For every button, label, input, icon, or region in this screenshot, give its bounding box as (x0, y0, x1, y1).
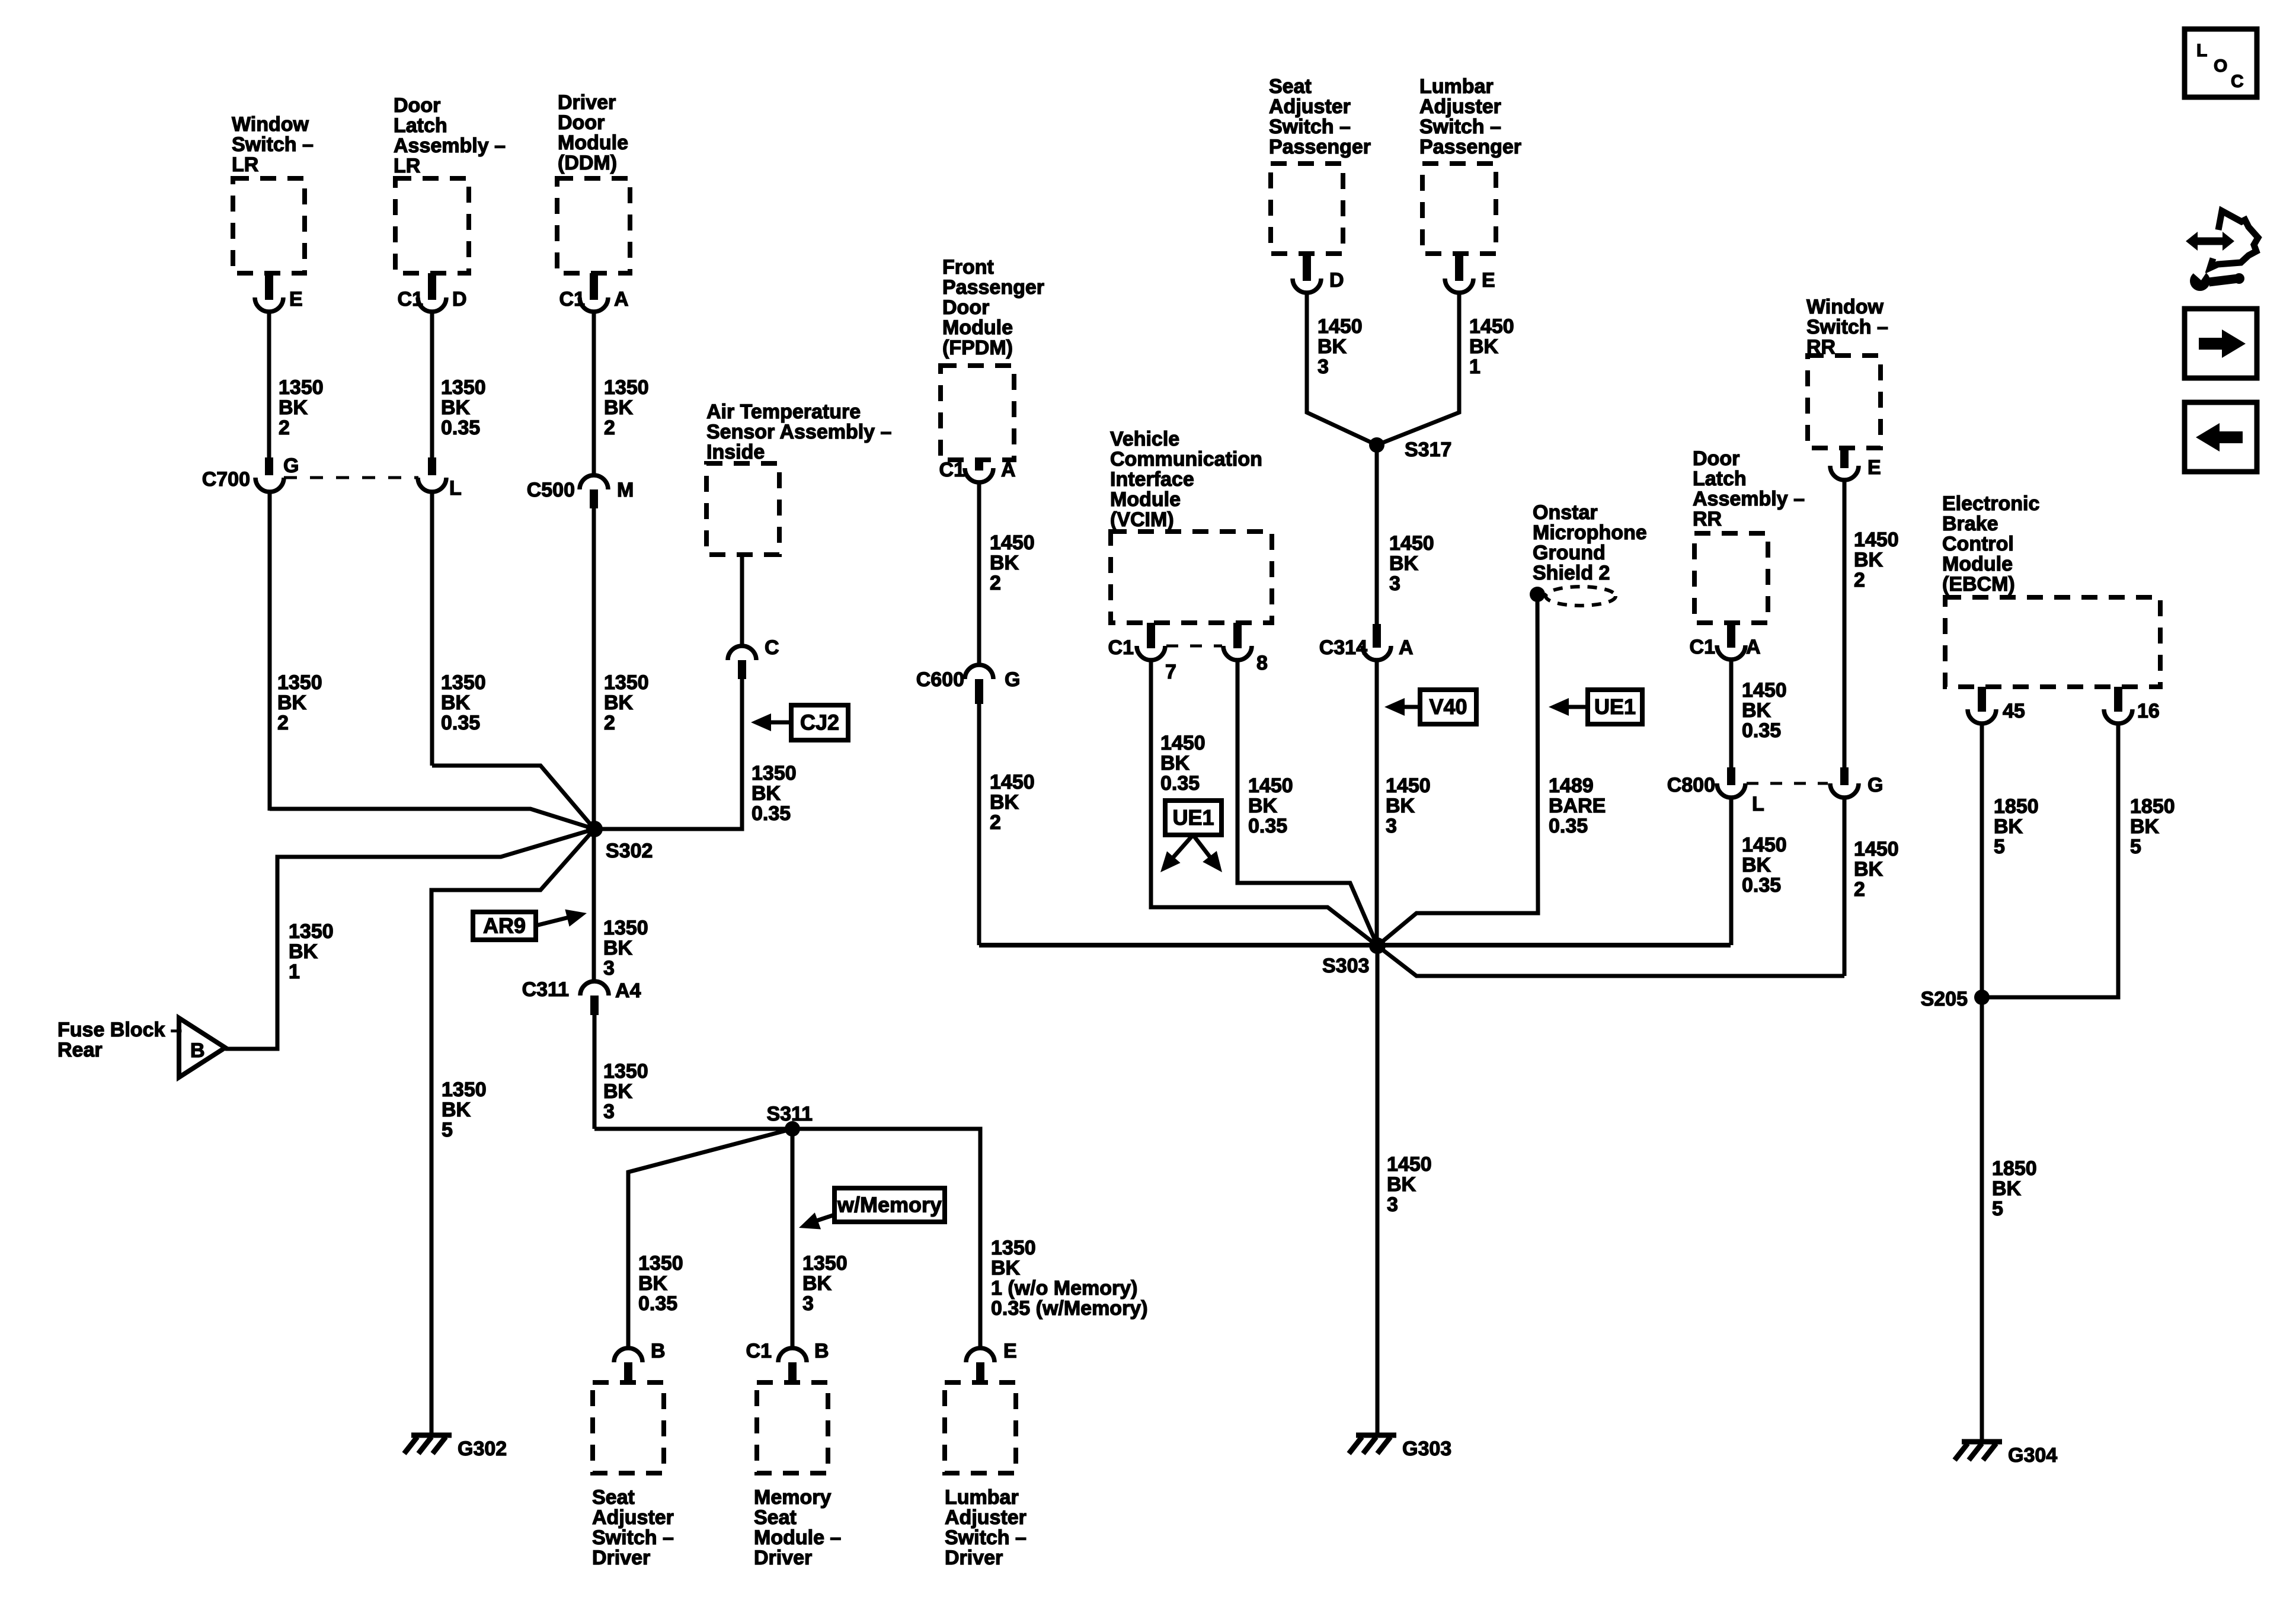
svg-text:D: D (1329, 269, 1344, 292)
svg-text:1450: 1450 (1469, 315, 1514, 338)
svg-text:Door: Door (942, 296, 989, 319)
svg-text:1450: 1450 (1387, 1153, 1432, 1176)
svg-text:1850: 1850 (1994, 795, 2039, 818)
svg-text:Passenger: Passenger (1419, 136, 1521, 158)
svg-text:1: 1 (1469, 356, 1480, 378)
svg-text:Switch –: Switch – (592, 1526, 674, 1549)
svg-text:Switch –: Switch – (1269, 116, 1351, 138)
svg-text:0.35: 0.35 (1160, 772, 1200, 795)
svg-text:0.35: 0.35 (1742, 874, 1781, 897)
svg-text:G304: G304 (2008, 1444, 2057, 1467)
svg-text:C600: C600 (916, 668, 964, 691)
svg-text:E: E (1003, 1340, 1017, 1362)
svg-text:Adjuster: Adjuster (1419, 95, 1501, 118)
svg-text:Latch: Latch (1693, 468, 1747, 490)
svg-text:Memory: Memory (754, 1486, 831, 1509)
svg-text:1: 1 (289, 961, 300, 983)
svg-text:Door: Door (394, 94, 440, 117)
svg-text:Adjuster: Adjuster (1269, 95, 1351, 118)
svg-text:C1: C1 (746, 1340, 772, 1362)
svg-text:1450: 1450 (1389, 532, 1434, 555)
svg-text:0.35 (w/Memory): 0.35 (w/Memory) (991, 1297, 1148, 1320)
svg-text:BK: BK (638, 1272, 668, 1295)
svg-text:5: 5 (2130, 836, 2141, 858)
svg-text:7: 7 (1165, 661, 1176, 683)
svg-text:16: 16 (2137, 700, 2160, 722)
svg-text:BK: BK (990, 552, 1019, 574)
svg-text:BK: BK (1742, 854, 1771, 876)
svg-text:BARE: BARE (1549, 795, 1606, 817)
svg-text:3: 3 (802, 1292, 814, 1315)
svg-text:0.35: 0.35 (1742, 719, 1781, 742)
svg-text:1450: 1450 (1318, 315, 1363, 338)
svg-text:B: B (651, 1340, 666, 1362)
svg-text:C1: C1 (559, 288, 585, 311)
svg-text:Interface: Interface (1110, 468, 1194, 491)
svg-text:B: B (190, 1039, 205, 1062)
svg-text:S311: S311 (766, 1103, 813, 1125)
svg-text:0.35: 0.35 (441, 417, 480, 439)
svg-text:Door: Door (558, 111, 605, 134)
svg-text:BK: BK (1386, 795, 1415, 817)
svg-text:BK: BK (1389, 552, 1419, 575)
svg-text:S302: S302 (606, 840, 653, 862)
svg-text:1350: 1350 (802, 1252, 848, 1275)
svg-text:1450: 1450 (990, 771, 1035, 793)
svg-text:A: A (614, 288, 629, 311)
svg-text:BK: BK (990, 791, 1019, 814)
svg-text:D: D (452, 288, 467, 311)
svg-text:1450: 1450 (1386, 774, 1431, 797)
svg-text:1850: 1850 (2130, 795, 2175, 818)
svg-text:Lumbar: Lumbar (945, 1486, 1019, 1509)
svg-text:1350: 1350 (289, 920, 334, 943)
svg-text:(DDM): (DDM) (558, 152, 617, 174)
svg-text:Ground: Ground (1533, 542, 1606, 564)
svg-text:Module: Module (1942, 553, 2013, 575)
svg-text:UE1: UE1 (1594, 694, 1636, 719)
svg-text:S303: S303 (1322, 955, 1369, 977)
svg-text:S205: S205 (1921, 988, 1968, 1010)
svg-text:Control: Control (1942, 533, 2014, 555)
svg-text:G: G (283, 454, 299, 477)
svg-text:1350: 1350 (279, 376, 324, 399)
svg-text:1350: 1350 (277, 671, 322, 694)
svg-text:2: 2 (990, 572, 1001, 594)
svg-text:S317: S317 (1405, 438, 1451, 461)
svg-text:C500: C500 (527, 479, 575, 501)
svg-text:0.35: 0.35 (1248, 815, 1287, 837)
svg-text:2: 2 (277, 712, 289, 734)
svg-text:Driver: Driver (558, 91, 616, 114)
svg-text:RR: RR (1693, 508, 1722, 530)
svg-text:1450: 1450 (1160, 732, 1205, 754)
svg-text:2: 2 (990, 811, 1001, 834)
svg-text:Door: Door (1693, 447, 1739, 470)
svg-text:1450: 1450 (1248, 774, 1293, 797)
svg-text:1489: 1489 (1549, 774, 1594, 797)
svg-text:BK: BK (1742, 699, 1771, 722)
svg-text:Communication: Communication (1110, 448, 1262, 470)
svg-text:BK: BK (279, 396, 308, 419)
svg-text:M: M (617, 479, 634, 501)
svg-text:Driver: Driver (945, 1547, 1003, 1569)
svg-text:BK: BK (1854, 858, 1884, 881)
svg-text:1350: 1350 (604, 671, 649, 694)
svg-text:Assembly –: Assembly – (394, 135, 506, 157)
svg-text:2: 2 (1854, 569, 1865, 591)
svg-text:G: G (1005, 668, 1020, 691)
svg-text:Onstar: Onstar (1533, 501, 1598, 524)
svg-text:G303: G303 (1402, 1438, 1451, 1460)
svg-text:1850: 1850 (1992, 1157, 2037, 1180)
svg-text:A: A (1746, 636, 1761, 658)
svg-text:5: 5 (1994, 836, 2005, 858)
svg-text:Brake: Brake (1942, 513, 1998, 535)
svg-text:Latch: Latch (394, 114, 447, 137)
svg-text:L: L (2196, 41, 2207, 60)
svg-text:Passenger: Passenger (942, 276, 1044, 299)
svg-text:Seat: Seat (592, 1486, 635, 1509)
svg-text:BK: BK (604, 396, 634, 419)
svg-text:C1: C1 (1108, 636, 1134, 659)
svg-text:Driver: Driver (592, 1547, 650, 1569)
svg-text:BK: BK (1160, 752, 1190, 774)
svg-text:Rear: Rear (57, 1039, 103, 1061)
svg-text:V40: V40 (1429, 694, 1467, 719)
svg-text:Electronic: Electronic (1942, 492, 2039, 515)
svg-text:C700: C700 (202, 468, 250, 491)
svg-text:Microphone: Microphone (1533, 521, 1647, 544)
svg-text:C: C (2231, 72, 2244, 91)
svg-text:1350: 1350 (441, 671, 486, 694)
svg-text:BK: BK (1992, 1177, 2022, 1200)
svg-text:B: B (814, 1340, 829, 1362)
svg-text:BK: BK (1994, 815, 2023, 838)
svg-text:0.35: 0.35 (752, 802, 791, 825)
svg-text:1350: 1350 (991, 1237, 1036, 1259)
svg-text:2: 2 (604, 712, 615, 734)
svg-text:Window: Window (232, 113, 309, 136)
svg-text:2: 2 (279, 417, 290, 439)
svg-text:1350: 1350 (442, 1078, 487, 1101)
svg-text:3: 3 (1387, 1193, 1398, 1216)
svg-text:5: 5 (442, 1119, 453, 1141)
svg-text:Module: Module (942, 316, 1013, 339)
svg-text:BK: BK (1248, 795, 1278, 817)
svg-text:AR9: AR9 (483, 914, 526, 938)
svg-text:G: G (1868, 774, 1883, 796)
svg-text:0.35: 0.35 (1549, 815, 1588, 837)
svg-text:3: 3 (1386, 815, 1397, 837)
svg-text:Seat: Seat (754, 1506, 797, 1529)
svg-text:45: 45 (2003, 700, 2025, 722)
svg-text:Module: Module (1110, 488, 1181, 511)
svg-text:Assembly –: Assembly – (1693, 488, 1805, 510)
svg-text:C1: C1 (939, 459, 965, 481)
svg-text:BK: BK (1387, 1173, 1416, 1196)
svg-text:8: 8 (1256, 652, 1268, 674)
svg-text:UE1: UE1 (1172, 805, 1214, 830)
svg-text:1350: 1350 (638, 1252, 683, 1275)
svg-text:C: C (765, 636, 779, 659)
svg-text:E: E (289, 288, 303, 311)
svg-text:Switch –: Switch – (232, 133, 314, 156)
svg-text:BK: BK (1469, 335, 1499, 358)
svg-text:0.35: 0.35 (638, 1292, 677, 1315)
svg-text:Module: Module (558, 132, 628, 154)
svg-text:C1: C1 (1690, 636, 1715, 658)
svg-text:LR: LR (232, 153, 258, 176)
svg-text:L: L (1752, 793, 1764, 815)
svg-text:Switch –: Switch – (1419, 116, 1501, 138)
svg-text:C314: C314 (1319, 636, 1367, 659)
svg-text:1 (w/o Memory): 1 (w/o Memory) (991, 1277, 1137, 1299)
svg-text:Window: Window (1806, 296, 1884, 318)
svg-text:BK: BK (441, 692, 471, 714)
svg-text:C311: C311 (522, 978, 569, 1001)
svg-text:BK: BK (603, 937, 633, 959)
svg-text:BK: BK (289, 940, 318, 963)
svg-text:G302: G302 (458, 1438, 507, 1460)
svg-text:BK: BK (991, 1257, 1021, 1279)
svg-text:Switch –: Switch – (1806, 316, 1888, 338)
svg-text:BK: BK (277, 692, 307, 714)
svg-text:Air Temperature: Air Temperature (706, 401, 861, 423)
svg-text:A: A (1399, 636, 1414, 659)
svg-text:(FPDM): (FPDM) (942, 337, 1013, 359)
svg-text:C1: C1 (398, 288, 423, 311)
svg-text:L: L (449, 477, 462, 500)
svg-text:Sensor Assembly –: Sensor Assembly – (706, 421, 891, 443)
svg-text:BK: BK (752, 782, 781, 805)
svg-text:A4: A4 (615, 980, 641, 1002)
svg-text:5: 5 (1992, 1198, 2003, 1220)
svg-text:1450: 1450 (1742, 834, 1787, 856)
svg-text:A: A (1001, 459, 1016, 481)
svg-text:Module –: Module – (754, 1526, 841, 1549)
svg-text:w/Memory: w/Memory (837, 1193, 942, 1217)
svg-text:3: 3 (1389, 572, 1400, 595)
svg-text:1350: 1350 (604, 376, 649, 399)
svg-text:BK: BK (604, 692, 634, 714)
svg-text:BK: BK (1854, 549, 1884, 571)
svg-text:Shield 2: Shield 2 (1533, 562, 1610, 584)
svg-text:1350: 1350 (603, 1060, 648, 1083)
svg-text:1350: 1350 (603, 917, 648, 939)
svg-text:BK: BK (603, 1080, 633, 1103)
svg-text:2: 2 (604, 417, 615, 439)
svg-text:1450: 1450 (1854, 529, 1899, 551)
svg-text:E: E (1482, 269, 1495, 292)
svg-text:1450: 1450 (1854, 838, 1899, 860)
svg-text:E: E (1868, 456, 1881, 479)
svg-text:O: O (2214, 56, 2227, 76)
svg-text:3: 3 (1318, 356, 1329, 378)
svg-text:Adjuster: Adjuster (945, 1506, 1027, 1529)
svg-text:BK: BK (441, 396, 471, 419)
svg-text:1450: 1450 (1742, 679, 1787, 702)
svg-text:C800: C800 (1667, 774, 1715, 796)
svg-text:BK: BK (442, 1099, 471, 1121)
svg-text:1350: 1350 (752, 762, 797, 785)
svg-text:Vehicle: Vehicle (1110, 428, 1179, 450)
svg-text:3: 3 (603, 957, 615, 980)
svg-text:Driver: Driver (754, 1547, 812, 1569)
svg-text:Inside: Inside (706, 441, 765, 463)
svg-text:0.35: 0.35 (441, 712, 480, 734)
svg-text:1350: 1350 (441, 376, 486, 399)
svg-text:(VCIM): (VCIM) (1110, 508, 1174, 531)
svg-text:BK: BK (802, 1272, 832, 1295)
svg-text:BK: BK (2130, 815, 2160, 838)
svg-text:3: 3 (603, 1100, 615, 1123)
svg-text:1450: 1450 (990, 532, 1035, 554)
svg-text:Seat: Seat (1269, 75, 1312, 98)
svg-text:Passenger: Passenger (1269, 136, 1371, 158)
svg-text:Lumbar: Lumbar (1419, 75, 1494, 98)
svg-text:Adjuster: Adjuster (592, 1506, 674, 1529)
svg-text:Front: Front (942, 256, 994, 279)
svg-text:Switch –: Switch – (945, 1526, 1027, 1549)
svg-text:BK: BK (1318, 335, 1347, 358)
svg-text:Fuse Block –: Fuse Block – (57, 1019, 182, 1041)
svg-text:2: 2 (1854, 878, 1865, 901)
svg-text:(EBCM): (EBCM) (1942, 573, 2015, 596)
svg-text:CJ2: CJ2 (800, 710, 839, 735)
svg-text:LR: LR (394, 155, 420, 177)
